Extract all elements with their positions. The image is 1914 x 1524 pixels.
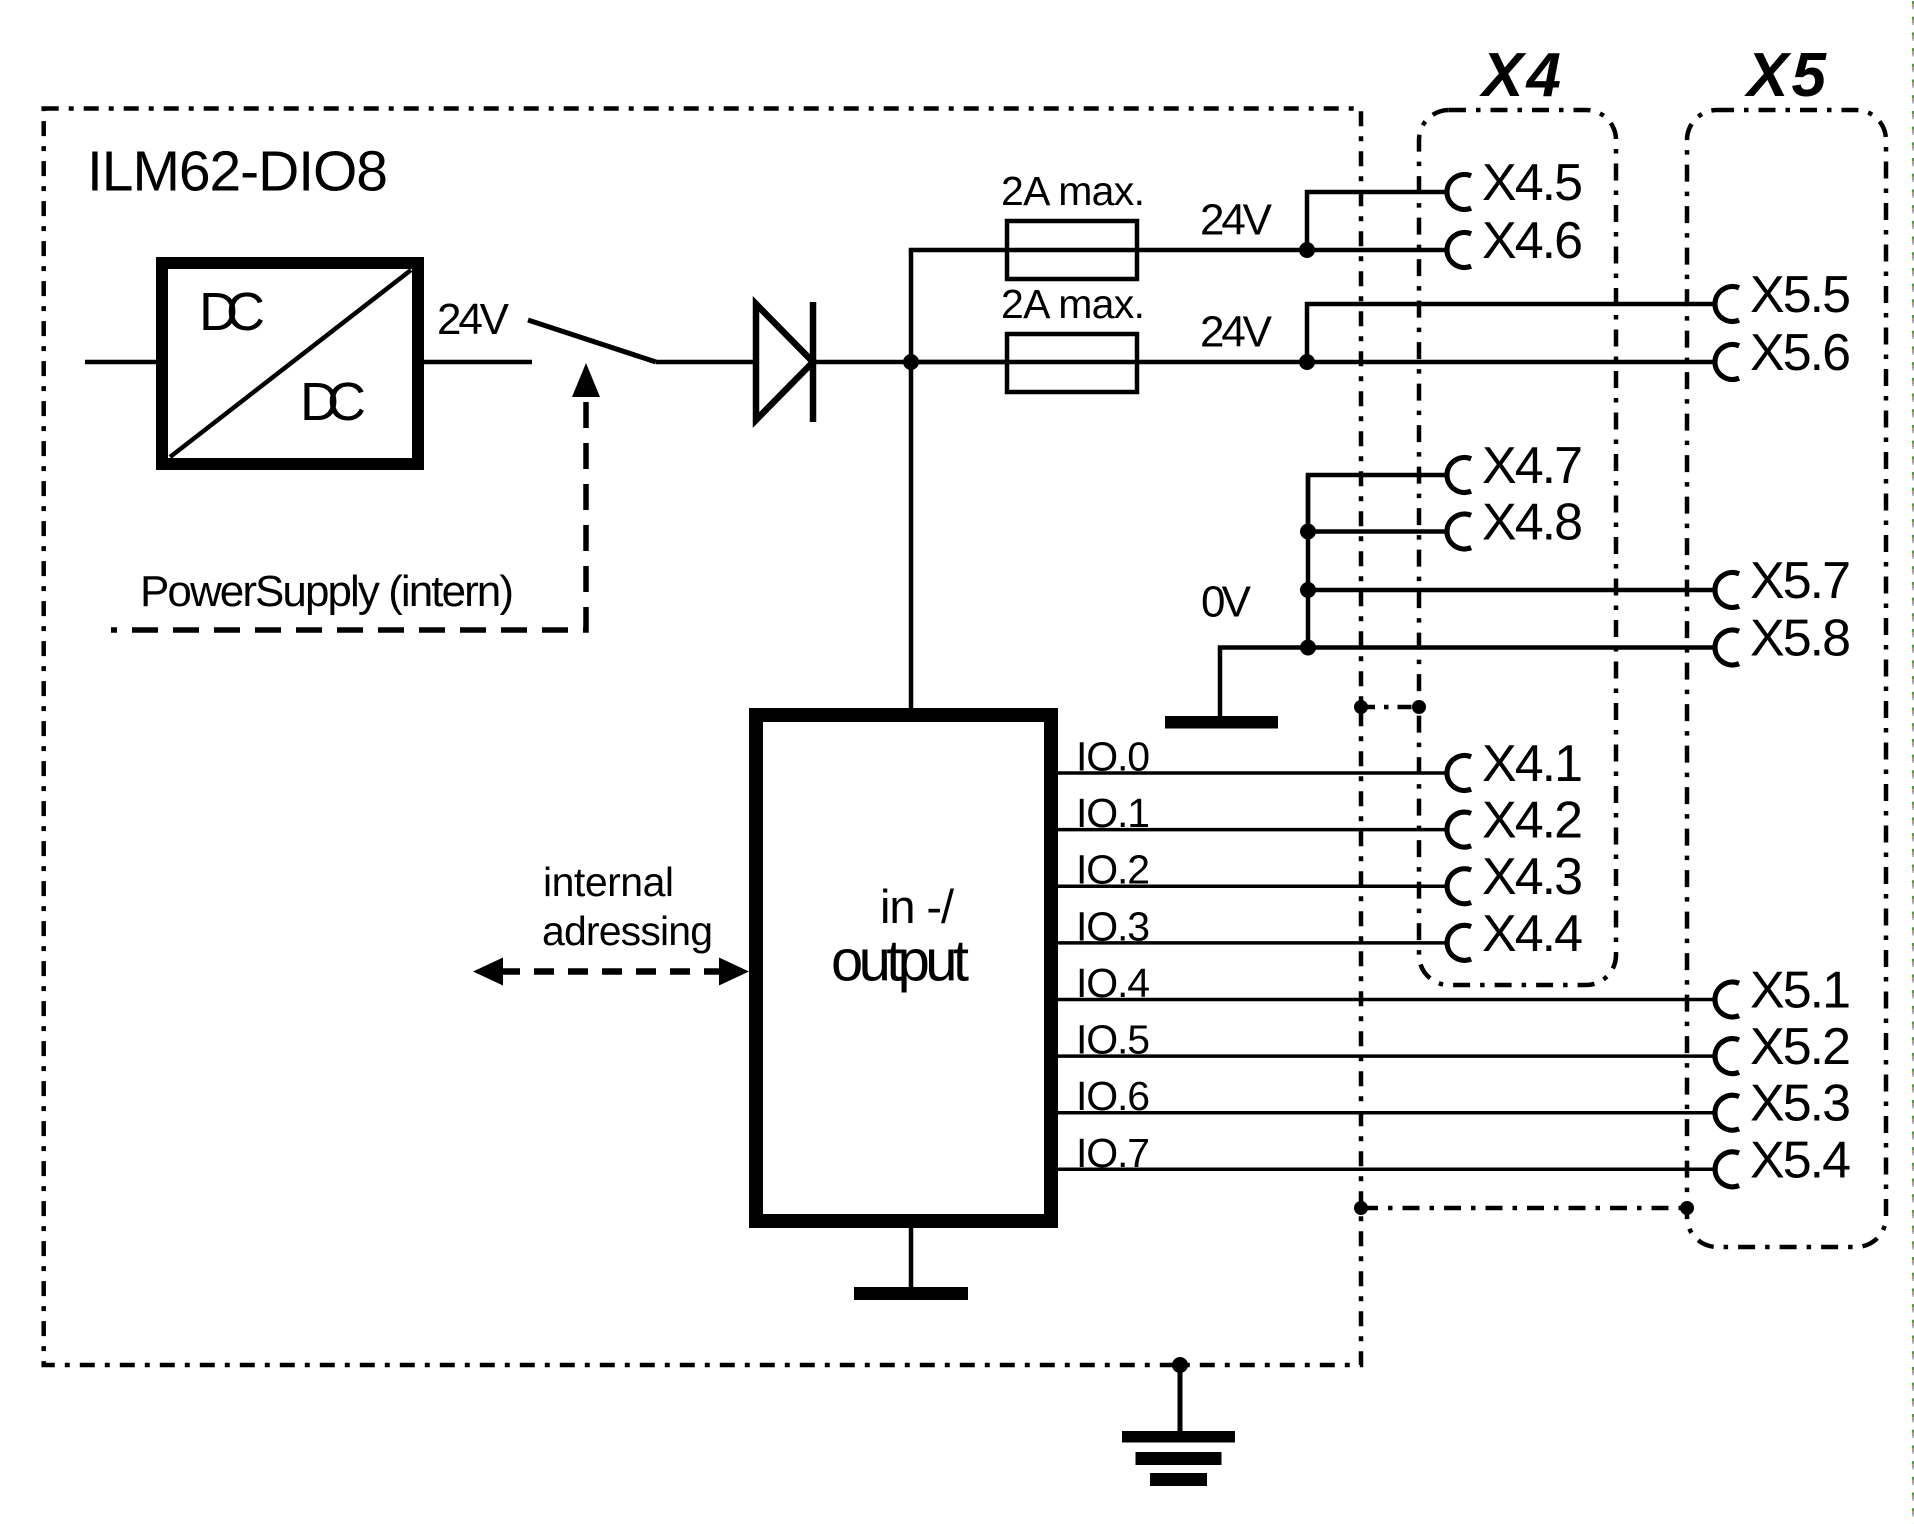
svg-text:DC: DC xyxy=(199,282,265,342)
pin X4.1 socket contact xyxy=(1447,756,1471,791)
in-/output block U2 xyxy=(756,715,1051,1221)
svg-text:X4.1: X4.1 xyxy=(1482,735,1583,793)
svg-text:X5.7: X5.7 xyxy=(1750,552,1851,610)
svg-text:X4.4: X4.4 xyxy=(1482,905,1583,963)
pin X5.7 socket contact xyxy=(1715,573,1739,608)
wire IO.2 xyxy=(1058,884,1445,888)
svg-text:2A max.: 2A max. xyxy=(1001,281,1145,327)
internal addressing dashed double arrow xyxy=(473,958,749,986)
pin X4.8 socket contact xyxy=(1447,514,1471,549)
svg-text:X4.6: X4.6 xyxy=(1482,212,1583,270)
svg-text:in -/: in -/ xyxy=(880,880,955,933)
node shield link at X4 xyxy=(1412,700,1426,714)
wire 0V bus vertical xyxy=(1306,475,1311,648)
wire feed to fuse F1 xyxy=(909,248,1007,253)
svg-text:24V: 24V xyxy=(437,295,510,344)
module boundary ILM62-DIO8 (dash-dot frame) xyxy=(44,109,1361,1366)
svg-text:PowerSupply (intern): PowerSupply (intern) xyxy=(140,567,514,616)
wire DC/DC output 24V to switch xyxy=(424,360,532,365)
wire switch to diode xyxy=(656,360,756,365)
svg-text:0V: 0V xyxy=(1201,578,1252,627)
wire 0V to ground stub xyxy=(1220,648,1308,719)
wire IO.1 xyxy=(1058,828,1445,832)
svg-text:24V: 24V xyxy=(1200,308,1273,357)
fuse F1 2A xyxy=(1007,221,1137,279)
pin X5.5 socket contact xyxy=(1715,287,1739,322)
pin X4.6 socket contact xyxy=(1447,233,1471,268)
fuse F2 2A xyxy=(1007,334,1137,392)
svg-text:IO.0: IO.0 xyxy=(1076,734,1150,780)
node shield link at frame (X5) xyxy=(1354,1201,1368,1215)
wire IO.6 xyxy=(1058,1111,1713,1115)
connector X4 boundary xyxy=(1419,110,1616,985)
node junction X4 supply xyxy=(1299,242,1315,258)
connector X5 boundary xyxy=(1687,110,1886,1247)
svg-text:X5.4: X5.4 xyxy=(1750,1131,1851,1189)
switch S1 blade xyxy=(528,320,656,362)
pin X4.7 socket contact xyxy=(1447,458,1471,493)
svg-text:IO.6: IO.6 xyxy=(1076,1073,1150,1119)
DC/DC converter U1 xyxy=(162,263,418,464)
svg-text:IO.1: IO.1 xyxy=(1076,790,1150,836)
pin X5.3 socket contact xyxy=(1715,1095,1739,1130)
svg-text:DC: DC xyxy=(300,372,366,432)
ground earth symbol xyxy=(1122,1365,1235,1486)
svg-text:X4: X4 xyxy=(1479,41,1561,110)
svg-text:X5.5: X5.5 xyxy=(1750,266,1851,324)
node junction X5 supply xyxy=(1299,354,1315,370)
wire 0V to X4.8 xyxy=(1308,529,1445,534)
wire fuse F2 through rect xyxy=(1007,360,1137,365)
svg-text:ILM62-DIO8: ILM62-DIO8 xyxy=(87,140,388,204)
node junction 0V at X4.8 xyxy=(1300,524,1316,540)
pin X4.4 socket contact xyxy=(1447,925,1471,960)
svg-text:adressing: adressing xyxy=(542,908,713,954)
svg-text:2A max.: 2A max. xyxy=(1001,168,1145,214)
wire to X5.6 xyxy=(1307,360,1713,365)
ground at in-/output block xyxy=(854,1228,968,1300)
node shield link at frame (X4) xyxy=(1354,700,1368,714)
pin X5.6 socket contact xyxy=(1715,345,1739,380)
PowerSupply control arrowhead at switch xyxy=(572,363,600,397)
pin X5.2 socket contact xyxy=(1715,1039,1739,1074)
svg-text:X5.1: X5.1 xyxy=(1750,962,1851,1020)
svg-text:X5.2: X5.2 xyxy=(1750,1018,1851,1076)
pin X4.2 socket contact xyxy=(1447,812,1471,847)
ground 0V reference (bar) xyxy=(1165,716,1278,729)
svg-text:X5.3: X5.3 xyxy=(1750,1075,1851,1133)
node chassis junction on frame xyxy=(1172,1357,1188,1373)
svg-text:X4.2: X4.2 xyxy=(1482,792,1583,850)
wire fuse F2 to X5 junction xyxy=(1137,360,1307,365)
svg-text:IO.3: IO.3 xyxy=(1076,903,1150,949)
wire to X4.6 xyxy=(1307,248,1445,253)
wire branch up to X5.5 xyxy=(1307,304,1713,362)
pin X4.3 socket contact xyxy=(1447,869,1471,904)
wire IO.7 xyxy=(1058,1168,1713,1172)
svg-text:IO.4: IO.4 xyxy=(1076,960,1150,1006)
node junction 24V bus at switch output xyxy=(903,354,919,370)
svg-text:X4.5: X4.5 xyxy=(1482,154,1583,212)
wire fuse F1 through rect xyxy=(1007,248,1137,253)
node shield link at X5 xyxy=(1680,1201,1694,1215)
node junction 0V at X5.7 xyxy=(1300,582,1316,598)
svg-text:IO.5: IO.5 xyxy=(1076,1017,1150,1063)
wire 24V vertical bus to in-/output block and fuse 1 feed xyxy=(909,250,914,708)
svg-text:IO.2: IO.2 xyxy=(1076,847,1150,893)
wire fuse F2 feed xyxy=(911,360,1007,365)
svg-text:X5.8: X5.8 xyxy=(1750,610,1851,668)
diode D1 xyxy=(756,302,813,422)
svg-text:24V: 24V xyxy=(1200,196,1273,245)
wire 0V to X5.8 xyxy=(1308,645,1713,650)
wire input stub to DC/DC xyxy=(85,360,156,365)
pin X5.4 socket contact xyxy=(1715,1152,1739,1187)
wire IO.4 xyxy=(1058,998,1713,1002)
page edge colour artifact strip xyxy=(1912,0,1914,1524)
svg-text:X4.8: X4.8 xyxy=(1482,494,1583,552)
wire IO.5 xyxy=(1058,1054,1713,1058)
wire 0V to X4.7 xyxy=(1308,475,1445,532)
svg-text:IO.7: IO.7 xyxy=(1076,1130,1150,1176)
PowerSupply (intern) control dashed outline xyxy=(111,402,586,630)
shield link frame to X5 xyxy=(1361,1206,1687,1211)
wire IO.3 xyxy=(1058,941,1445,945)
wire diode to 24V bus junction xyxy=(813,360,1010,365)
pin X4.5 socket contact xyxy=(1447,174,1471,209)
svg-text:internal: internal xyxy=(543,859,674,905)
svg-text:X5: X5 xyxy=(1744,41,1828,110)
pin X5.8 socket contact xyxy=(1715,630,1739,665)
shield link frame to X4 xyxy=(1361,705,1419,710)
wire branch up to X4.5 xyxy=(1307,192,1445,250)
svg-text:X4.3: X4.3 xyxy=(1482,848,1583,906)
wire IO.0 xyxy=(1058,771,1445,775)
svg-text:X4.7: X4.7 xyxy=(1482,437,1583,495)
node junction 0V at X5.8 xyxy=(1300,640,1316,656)
svg-text:X5.6: X5.6 xyxy=(1750,324,1851,382)
wire fuse F1 to X4 junction xyxy=(1137,248,1307,253)
wire 0V to X5.7 xyxy=(1308,588,1713,593)
svg-text:output: output xyxy=(831,929,969,994)
pin X5.1 socket contact xyxy=(1715,982,1739,1017)
